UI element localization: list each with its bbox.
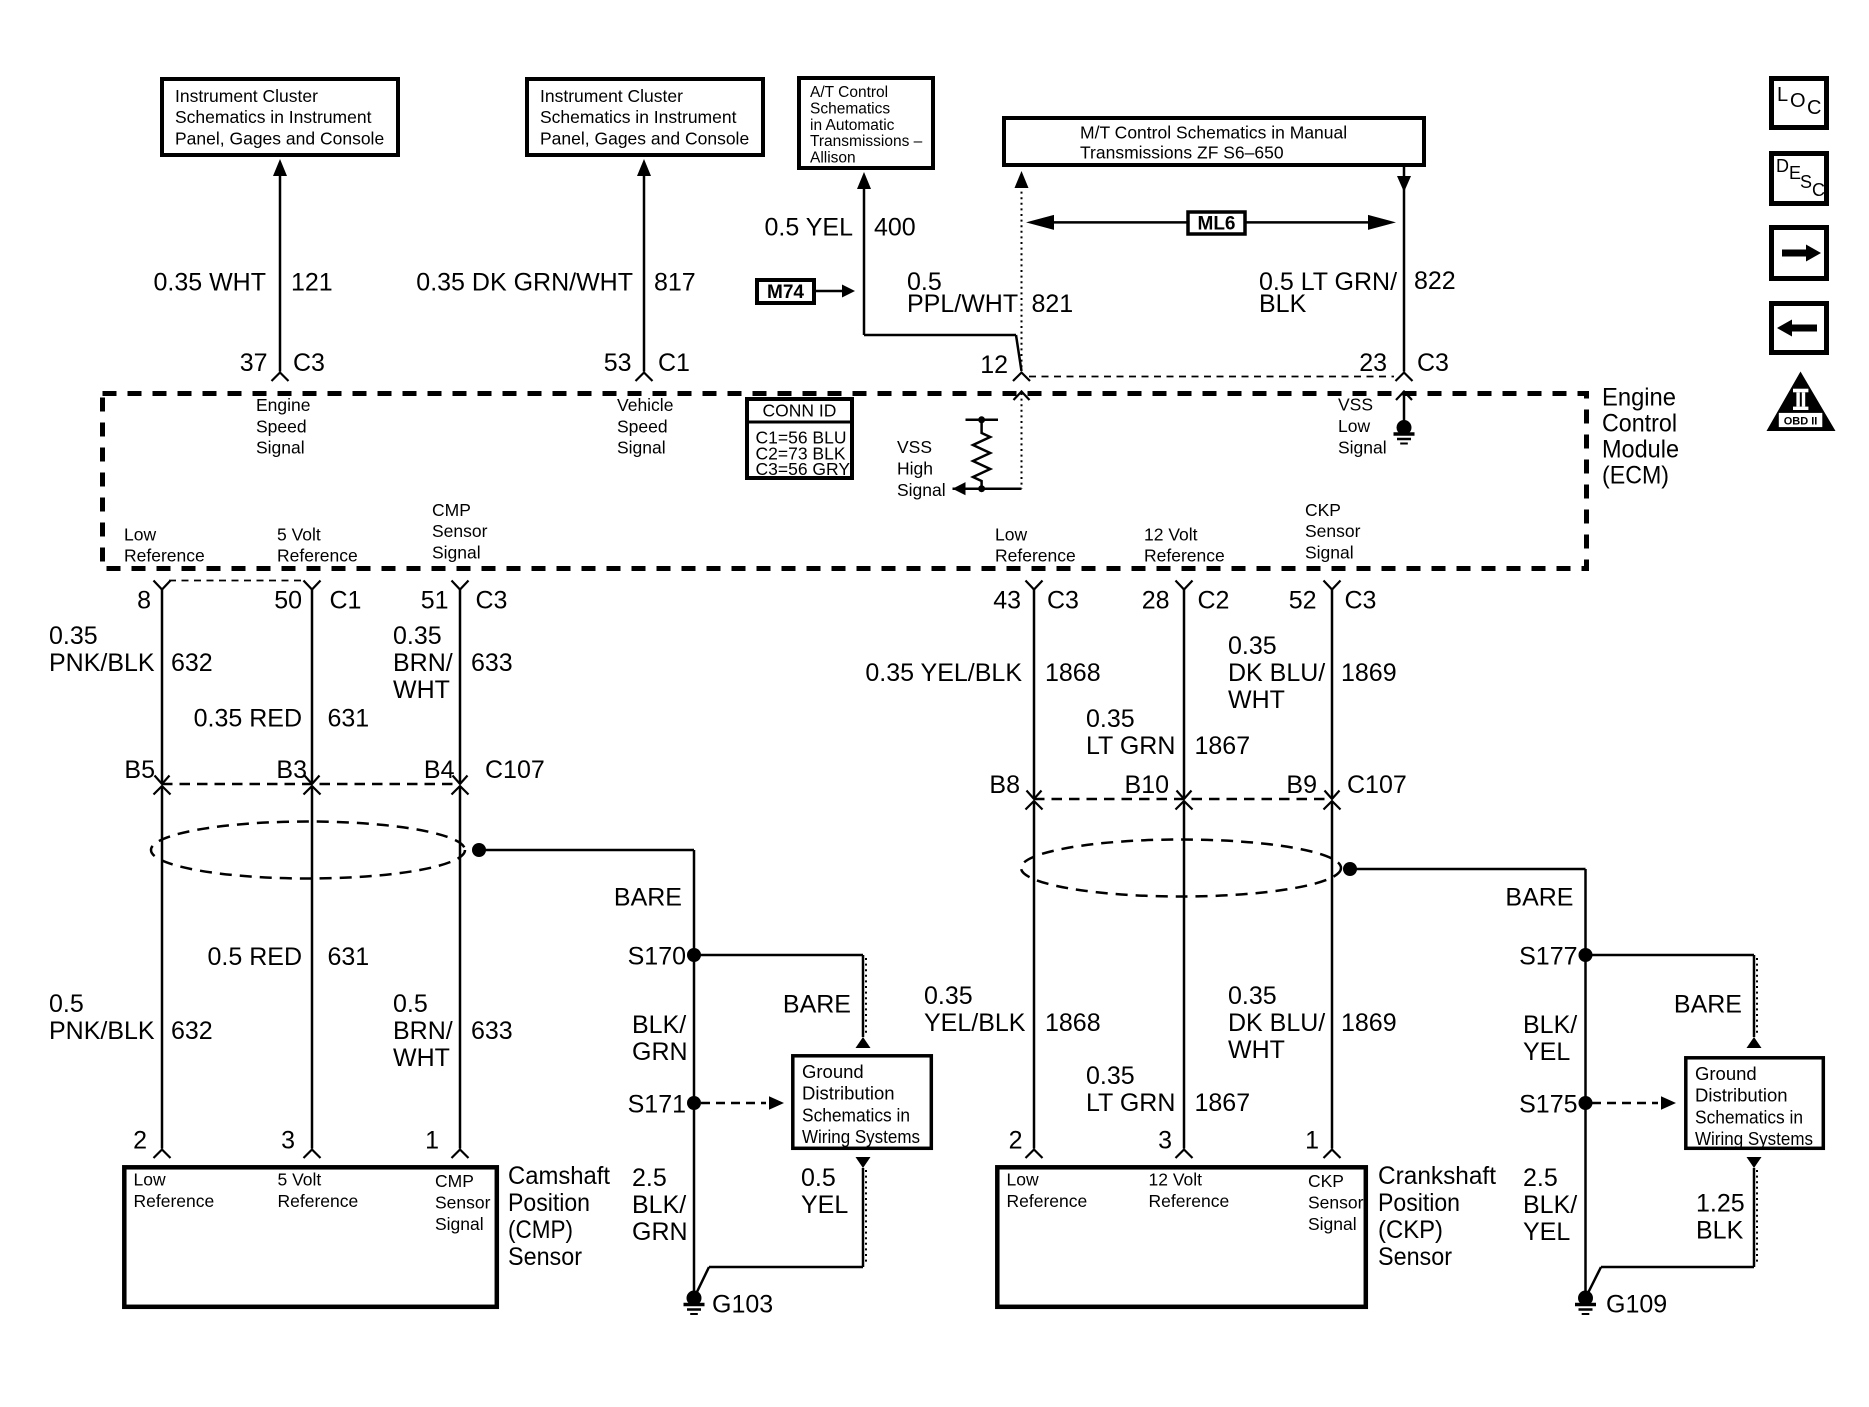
pin 50 C1 connector at ECM bottom [274, 581, 361, 615]
svg-text:1867: 1867 [1195, 1089, 1251, 1117]
svg-text:Schematics in: Schematics in [802, 1104, 910, 1125]
label 0.35 LT GRN upper [1086, 705, 1175, 760]
svg-text:2: 2 [1009, 1127, 1023, 1155]
svg-text:C3=56 GRY: C3=56 GRY [756, 459, 851, 479]
ground G103 [684, 1291, 774, 1319]
svg-text:632: 632 [171, 649, 213, 677]
svg-text:Low: Low [124, 525, 156, 545]
svg-text:BLK: BLK [1696, 1217, 1744, 1245]
svg-text:C: C [1812, 180, 1825, 200]
svg-text:BARE: BARE [783, 991, 851, 1019]
svg-text:2.5: 2.5 [1523, 1164, 1558, 1192]
svg-text:Instrument Cluster: Instrument Cluster [175, 86, 318, 106]
icon box DESC [1772, 154, 1827, 204]
svg-text:Camshaft: Camshaft [508, 1162, 610, 1190]
svg-text:C: C [1807, 97, 1821, 119]
svg-text:1: 1 [425, 1127, 439, 1155]
svg-text:ML6: ML6 [1198, 214, 1236, 235]
svg-text:2: 2 [133, 1127, 147, 1155]
wire 400 (0.5 YEL) to A/T control [857, 172, 1022, 371]
pin 12 connector at ECM [980, 351, 1030, 381]
svg-text:Crankshaft: Crankshaft [1378, 1162, 1496, 1190]
ECM signal label Low Reference (CKP) [995, 525, 1076, 566]
svg-text:0.5: 0.5 [49, 990, 84, 1018]
svg-text:WHT: WHT [393, 1044, 450, 1072]
svg-text:B3: B3 [276, 756, 307, 784]
svg-text:BARE: BARE [614, 884, 682, 912]
svg-text:0.35: 0.35 [393, 622, 442, 650]
wire 817 (0.35 DK GRN/WHT) to instrument cluster [637, 159, 651, 372]
svg-text:B5: B5 [124, 756, 155, 784]
ground G109 [1575, 1291, 1667, 1319]
svg-text:YEL: YEL [1523, 1038, 1570, 1066]
svg-text:400: 400 [874, 214, 916, 242]
CKP sensor box [997, 1167, 1366, 1307]
splice S171 with dashed branch [628, 1091, 784, 1119]
shield drain junction node (CKP) [1343, 862, 1586, 876]
ECM signal label CMP Sensor Signal [432, 500, 488, 563]
svg-text:Signal: Signal [435, 1214, 484, 1234]
pin 8 connector at ECM bottom [137, 581, 170, 615]
svg-text:Engine: Engine [1602, 384, 1676, 412]
svg-text:Low: Low [1007, 1169, 1039, 1189]
svg-text:Signal: Signal [1305, 543, 1354, 563]
ECM internal resistor for VSS [966, 416, 999, 492]
svg-text:S: S [1800, 172, 1812, 192]
svg-text:C3: C3 [1417, 349, 1449, 377]
svg-text:CKP: CKP [1305, 500, 1341, 520]
wire 633 lower segment (0.5 BRN/WHT) [459, 786, 462, 1149]
svg-text:A/T Control: A/T Control [810, 84, 888, 101]
svg-text:PNK/BLK: PNK/BLK [49, 649, 155, 677]
wire 1867 lower segment (0.35 LT GRN) [1183, 801, 1186, 1149]
svg-text:C3: C3 [293, 349, 325, 377]
svg-text:Reference: Reference [995, 546, 1076, 566]
wire 822 (0.5 LT GRN/BLK) to M/T control [1397, 167, 1411, 372]
svg-text:High: High [897, 459, 933, 479]
svg-text:YEL: YEL [1523, 1218, 1570, 1246]
svg-text:Panel, Gages and Console: Panel, Gages and Console [175, 129, 384, 149]
svg-text:Schematics in: Schematics in [1695, 1106, 1803, 1127]
svg-text:CMP: CMP [432, 500, 471, 520]
svg-text:Vehicle: Vehicle [617, 395, 673, 415]
ECM signal label CKP Sensor Signal [1305, 500, 1361, 563]
svg-text:Speed: Speed [256, 416, 307, 436]
icon OBD II triangle [1767, 372, 1836, 432]
svg-text:Signal: Signal [897, 480, 946, 500]
wire 1868 lower segment (0.35 YEL/BLK) [1033, 801, 1036, 1149]
wire 632 lower segment (0.5 PNK/BLK) [161, 786, 164, 1149]
reference box: Instrument Cluster Schematics (left) [162, 79, 398, 155]
label 0.35 YEL/BLK lower [924, 982, 1026, 1037]
svg-text:Position: Position [1378, 1189, 1460, 1217]
svg-text:Sensor: Sensor [508, 1243, 582, 1271]
svg-text:Signal: Signal [1338, 437, 1387, 457]
svg-text:CMP: CMP [435, 1171, 474, 1191]
svg-text:CKP: CKP [1308, 1171, 1344, 1191]
pin 3 connector at CKP sensor [1158, 1127, 1192, 1159]
svg-text:LT GRN: LT GRN [1086, 732, 1175, 760]
svg-text:822: 822 [1414, 267, 1456, 295]
svg-text:1869: 1869 [1341, 659, 1397, 687]
inline connector C107 row B5/B3/B4 [124, 756, 544, 795]
svg-text:Reference: Reference [1007, 1191, 1088, 1211]
svg-text:Control: Control [1602, 410, 1677, 438]
pin 1 connector at CMP sensor [425, 1127, 468, 1159]
svg-text:LT GRN: LT GRN [1086, 1089, 1175, 1117]
svg-text:C2: C2 [1198, 587, 1230, 615]
wire 1867 upper segment (0.35 LT GRN) [1183, 590, 1186, 800]
svg-text:CONN ID: CONN ID [763, 400, 837, 420]
svg-text:WHT: WHT [393, 676, 450, 704]
svg-text:0.5 YEL: 0.5 YEL [764, 214, 853, 242]
svg-text:BARE: BARE [1505, 884, 1573, 912]
svg-text:YEL/BLK: YEL/BLK [924, 1009, 1026, 1037]
label 0.5 YEL [801, 1164, 848, 1219]
svg-text:821: 821 [1032, 290, 1074, 318]
svg-text:1.25: 1.25 [1696, 1190, 1745, 1218]
label 0.35 BRN/WHT upper [393, 622, 453, 704]
ECM signal label 5 Volt Reference [277, 525, 358, 566]
pin 28 C2 connector at ECM bottom [1142, 581, 1230, 615]
svg-text:3: 3 [1158, 1127, 1172, 1155]
pin 2 connector at CKP sensor [1009, 1127, 1043, 1159]
svg-text:C107: C107 [1347, 771, 1407, 799]
label Crankshaft Position (CKP) Sensor [1378, 1162, 1496, 1271]
svg-text:0.35 RED: 0.35 RED [194, 705, 302, 733]
svg-text:0.5: 0.5 [393, 990, 428, 1018]
svg-text:Transmissions –: Transmissions – [810, 133, 923, 150]
wire 633 upper segment (0.35 BRN/WHT) [459, 590, 462, 785]
svg-text:GRN: GRN [632, 1038, 688, 1066]
svg-text:Sensor: Sensor [435, 1192, 491, 1212]
svg-text:Reference: Reference [1144, 546, 1225, 566]
ECM internal dotted wire from pin 12 [1014, 392, 1030, 489]
reference box: Ground Distribution (left) [793, 1056, 932, 1149]
svg-text:Distribution: Distribution [1695, 1085, 1788, 1106]
bare shield wire down to G103 [693, 850, 696, 1292]
svg-text:121: 121 [291, 269, 333, 297]
svg-text:S171: S171 [628, 1091, 686, 1119]
svg-text:B8: B8 [989, 771, 1020, 799]
label BLK/YEL [1523, 1011, 1577, 1066]
svg-text:0.35 DK GRN/WHT: 0.35 DK GRN/WHT [416, 269, 633, 297]
svg-text:1868: 1868 [1045, 659, 1101, 687]
svg-text:WHT: WHT [1228, 686, 1285, 714]
reference box: Instrument Cluster Schematics (middle) [527, 79, 763, 155]
svg-text:Position: Position [508, 1189, 590, 1217]
ECM signal label Low Reference (CMP) [124, 525, 205, 566]
svg-text:Module: Module [1602, 436, 1679, 464]
svg-text:5 Volt: 5 Volt [277, 525, 321, 545]
svg-text:Sensor: Sensor [1308, 1192, 1364, 1212]
svg-text:12 Volt: 12 Volt [1149, 1169, 1203, 1189]
connector group dashed line pins 12-23 [1029, 376, 1394, 378]
svg-text:M/T Control Schematics in Manu: M/T Control Schematics in Manual [1080, 122, 1347, 142]
pin 43 C3 connector at ECM bottom [993, 581, 1079, 615]
label 0.5 PPL/WHT [907, 268, 1018, 318]
svg-text:Allison: Allison [810, 149, 856, 166]
icon box arrow left [1772, 304, 1827, 353]
svg-text:Sensor: Sensor [1378, 1243, 1452, 1271]
pin 51 C3 connector at ECM bottom [421, 581, 508, 615]
icon box arrow right [1772, 228, 1827, 279]
reference box: Ground Distribution (right) [1686, 1058, 1824, 1149]
label 1.25 BLK [1696, 1190, 1745, 1245]
svg-text:1868: 1868 [1045, 1009, 1101, 1037]
label 0.5 PNK/BLK lower [49, 990, 155, 1045]
label 0.5 BRN/WHT lower [393, 990, 453, 1072]
svg-text:Low: Low [134, 1169, 166, 1189]
svg-text:Sensor: Sensor [432, 521, 488, 541]
svg-text:Signal: Signal [256, 438, 305, 458]
pin 23 C3 connector at ECM [1359, 349, 1449, 381]
wire 1868 upper segment (0.35 YEL/BLK) [1033, 590, 1036, 800]
ECM VSS high signal arrow and node [953, 482, 1022, 495]
svg-text:C3: C3 [1345, 587, 1377, 615]
svg-text:M74: M74 [767, 282, 804, 303]
option arrow ML6 between wires 821 and 822 [1026, 212, 1396, 235]
ECM signal label Vehicle Speed Signal [617, 395, 673, 458]
svg-text:Reference: Reference [277, 546, 358, 566]
svg-text:BLK/: BLK/ [632, 1011, 686, 1039]
svg-text:BLK/: BLK/ [1523, 1011, 1577, 1039]
svg-text:Signal: Signal [1308, 1214, 1357, 1234]
svg-text:BLK/: BLK/ [632, 1191, 686, 1219]
label 0.35 LT GRN lower [1086, 1062, 1175, 1117]
svg-text:C3: C3 [1047, 587, 1079, 615]
pin 52 C3 connector at ECM bottom [1289, 581, 1377, 615]
svg-text:G109: G109 [1606, 1291, 1667, 1319]
pin 37 C3 connector at ECM [240, 349, 325, 381]
label 0.5 LT GRN/BLK [1259, 268, 1397, 318]
svg-text:Ground: Ground [1695, 1063, 1757, 1084]
svg-text:28: 28 [1142, 587, 1170, 615]
svg-text:Wiring Systems: Wiring Systems [1695, 1128, 1813, 1149]
wire 0.5 YEL from ground distribution to G103 [696, 1157, 871, 1295]
svg-text:0.35: 0.35 [1228, 632, 1277, 660]
svg-text:Low: Low [995, 525, 1027, 545]
svg-text:817: 817 [654, 269, 696, 297]
wire 1869 upper segment (0.35 DK BLU/WHT) [1331, 590, 1334, 800]
wire 631 upper segment (0.35 RED) [311, 590, 314, 785]
svg-text:Signal: Signal [617, 438, 666, 458]
pin 3 connector at CMP sensor [281, 1127, 320, 1159]
svg-text:43: 43 [993, 587, 1021, 615]
svg-text:C3: C3 [476, 587, 508, 615]
svg-text:12: 12 [980, 351, 1008, 379]
pin 53 C1 connector at ECM [604, 349, 690, 381]
svg-text:633: 633 [471, 649, 513, 677]
pin 1 connector at CKP sensor [1305, 1127, 1340, 1159]
svg-text:BRN/: BRN/ [393, 649, 453, 677]
svg-text:VSS: VSS [1338, 395, 1373, 415]
svg-text:631: 631 [328, 705, 370, 733]
svg-text:53: 53 [604, 349, 632, 377]
shield ellipse around CKP wires [1021, 840, 1341, 897]
svg-text:(CMP): (CMP) [508, 1216, 573, 1244]
svg-text:BARE: BARE [1674, 991, 1742, 1019]
svg-text:(CKP): (CKP) [1378, 1216, 1443, 1244]
CONN ID table [747, 399, 852, 479]
svg-text:1: 1 [1305, 1127, 1319, 1155]
bare branch wire from S177 to ground distribution [1586, 955, 1762, 1048]
svg-text:52: 52 [1289, 587, 1317, 615]
svg-text:Transmissions ZF S6–650: Transmissions ZF S6–650 [1080, 142, 1284, 162]
wire 632 upper segment (0.35 PNK/BLK) [161, 590, 164, 785]
svg-text:2.5: 2.5 [632, 1164, 667, 1192]
wire 1869 lower segment (0.35 DK BLU/WHT) [1331, 801, 1334, 1149]
svg-text:Instrument Cluster: Instrument Cluster [540, 86, 683, 106]
wire 631 lower segment (0.5 RED) [311, 786, 314, 1149]
svg-text:BLK/: BLK/ [1523, 1191, 1577, 1219]
svg-text:0.5 RED: 0.5 RED [208, 943, 302, 971]
svg-text:Schematics in Instrument: Schematics in Instrument [540, 107, 737, 127]
svg-text:Signal: Signal [432, 543, 481, 563]
svg-text:50: 50 [274, 587, 302, 615]
svg-text:0.35: 0.35 [924, 982, 973, 1010]
shield ellipse around CMP wires [151, 822, 465, 879]
svg-text:GRN: GRN [632, 1218, 688, 1246]
svg-text:S177: S177 [1519, 943, 1577, 971]
svg-text:G103: G103 [712, 1291, 773, 1319]
svg-text:C107: C107 [485, 756, 545, 784]
pin 2 connector at CMP sensor [133, 1127, 170, 1159]
svg-text:DK BLU/: DK BLU/ [1228, 659, 1325, 687]
wire 821 (0.5 PPL/WHT, dotted) to M/T control [1015, 171, 1029, 371]
label 0.35 DK BLU/WHT lower [1228, 982, 1325, 1064]
svg-text:PPL/WHT: PPL/WHT [907, 290, 1018, 318]
svg-text:8: 8 [137, 587, 151, 615]
svg-text:B9: B9 [1286, 771, 1317, 799]
reference box: A/T Control Schematics - Allison [799, 78, 933, 168]
svg-text:VSS: VSS [897, 437, 932, 457]
svg-text:1867: 1867 [1195, 732, 1251, 760]
svg-text:5 Volt: 5 Volt [278, 1169, 322, 1189]
svg-text:(ECM): (ECM) [1602, 462, 1669, 490]
Engine Control Module dashed outline [103, 394, 1587, 569]
svg-text:37: 37 [240, 349, 268, 377]
svg-text:C1: C1 [658, 349, 690, 377]
svg-text:C1: C1 [330, 587, 362, 615]
svg-text:1869: 1869 [1341, 1009, 1397, 1037]
svg-text:Wiring Systems: Wiring Systems [802, 1126, 920, 1147]
bare branch wire from S170 to ground distribution [694, 955, 871, 1048]
svg-text:Reference: Reference [1149, 1191, 1230, 1211]
label Engine Control Module (ECM) [1602, 384, 1679, 490]
svg-text:0.35 YEL/BLK: 0.35 YEL/BLK [865, 659, 1022, 687]
svg-text:0.35: 0.35 [1228, 982, 1277, 1010]
svg-text:Schematics: Schematics [810, 101, 890, 118]
bare shield wire down to G109 [1584, 869, 1587, 1292]
svg-text:BRN/: BRN/ [393, 1017, 453, 1045]
svg-text:0.35: 0.35 [1086, 705, 1135, 733]
label 0.35 DK BLU/WHT upper [1228, 632, 1325, 714]
reference tag M74 with arrow [757, 280, 855, 303]
label Camshaft Position (CMP) Sensor [508, 1162, 610, 1271]
svg-text:632: 632 [171, 1017, 213, 1045]
svg-text:Schematics in Instrument: Schematics in Instrument [175, 107, 372, 127]
svg-text:S170: S170 [628, 943, 686, 971]
svg-text:L: L [1777, 84, 1788, 106]
reference box: M/T Control Schematics ZF S6-650 [1004, 118, 1424, 165]
svg-text:12 Volt: 12 Volt [1144, 525, 1198, 545]
svg-text:Sensor: Sensor [1305, 521, 1361, 541]
svg-text:B4: B4 [424, 756, 455, 784]
label 2.5 BLK/GRN [632, 1164, 688, 1246]
svg-text:Panel, Gages and Console: Panel, Gages and Console [540, 129, 749, 149]
svg-text:Ground: Ground [802, 1061, 864, 1082]
inline connector C107 row B8/B10/B9 [989, 771, 1406, 810]
svg-text:0.35 WHT: 0.35 WHT [153, 269, 266, 297]
shield drain junction node (CMP) [472, 843, 694, 857]
svg-text:0.5: 0.5 [801, 1164, 836, 1192]
label BLK/GRN [632, 1011, 688, 1066]
splice S170 [628, 943, 701, 971]
svg-text:Reference: Reference [124, 546, 205, 566]
icon box LOC [1772, 79, 1827, 128]
svg-text:23: 23 [1359, 349, 1387, 377]
label 0.35 PNK/BLK upper [49, 622, 155, 677]
svg-text:Low: Low [1338, 416, 1370, 436]
ECM signal label Engine Speed Signal [256, 395, 311, 458]
ECM signal label VSS High Signal [897, 437, 946, 500]
svg-text:DK BLU/: DK BLU/ [1228, 1009, 1325, 1037]
svg-text:3: 3 [281, 1127, 295, 1155]
ECM signal label VSS Low Signal [1338, 395, 1387, 458]
svg-text:PNK/BLK: PNK/BLK [49, 1017, 155, 1045]
svg-text:in Automatic: in Automatic [810, 117, 895, 134]
svg-text:631: 631 [328, 943, 370, 971]
svg-text:Speed: Speed [617, 416, 668, 436]
ECM signal label 12 Volt Reference [1144, 525, 1225, 566]
svg-text:51: 51 [421, 587, 449, 615]
svg-text:B10: B10 [1125, 771, 1169, 799]
svg-text:S175: S175 [1519, 1091, 1577, 1119]
CMP sensor box [124, 1167, 497, 1307]
svg-text:633: 633 [471, 1017, 513, 1045]
ECM VSS low signal internal ground [1394, 392, 1415, 444]
svg-text:Reference: Reference [278, 1191, 359, 1211]
svg-text:Engine: Engine [256, 395, 311, 415]
svg-text:0.35: 0.35 [49, 622, 98, 650]
splice S175 with dashed branch [1519, 1091, 1676, 1119]
svg-text:Distribution: Distribution [802, 1083, 895, 1104]
svg-text:OBD II: OBD II [1784, 416, 1818, 428]
label 2.5 BLK/YEL [1523, 1164, 1577, 1246]
svg-text:BLK: BLK [1259, 290, 1307, 318]
svg-text:0.35: 0.35 [1086, 1062, 1135, 1090]
svg-text:O: O [1790, 90, 1806, 112]
svg-text:WHT: WHT [1228, 1036, 1285, 1064]
wire 1.25 BLK from ground distribution to G109 [1587, 1157, 1762, 1295]
svg-text:YEL: YEL [801, 1191, 848, 1219]
wire 121 (0.35 WHT) to instrument cluster [273, 159, 287, 372]
svg-text:D: D [1776, 156, 1789, 176]
connector group dashed line pins 8-50 [169, 580, 305, 582]
splice S177 [1519, 943, 1592, 971]
svg-text:Reference: Reference [134, 1191, 215, 1211]
